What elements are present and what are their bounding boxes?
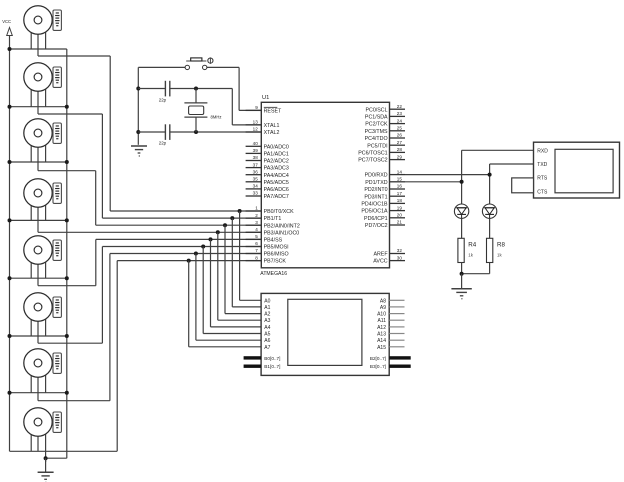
pin 39 PA1/ADC1: [246, 152, 262, 154]
pin 5 PB4/SS: [246, 238, 262, 240]
svg-text:VCC: VCC: [2, 19, 11, 24]
wire PB6 to A6: [195, 254, 197, 341]
svg-text:19: 19: [397, 205, 403, 210]
svg-text:ATMEGA16: ATMEGA16: [260, 271, 287, 277]
svg-text:24: 24: [397, 118, 403, 123]
wire XTAL1 jog: [231, 89, 233, 125]
bus pin B0[0..7]: [244, 356, 262, 359]
wire PB1 to A1: [231, 218, 233, 307]
svg-text:27: 27: [397, 140, 403, 145]
wire PB0 to A0: [239, 211, 241, 300]
wire LS8 signal to PB7: [116, 261, 118, 452]
pin 35 PA5/ADC5: [246, 181, 262, 183]
svg-text:39: 39: [253, 148, 259, 153]
svg-text:PB6/MISO: PB6/MISO: [264, 252, 289, 258]
svg-text:A9: A9: [380, 305, 386, 311]
wire PD0 to LED D2: [405, 174, 490, 176]
svg-text:20: 20: [397, 213, 403, 218]
svg-text:A0: A0: [264, 298, 270, 304]
svg-text:7: 7: [255, 248, 258, 253]
svg-text:22: 22: [397, 104, 403, 109]
display matrix block body: [261, 293, 389, 375]
label sounder LS4: [53, 183, 61, 203]
wire sounder LS4 pins: [30, 193, 32, 220]
svg-text:XTAL2: XTAL2: [264, 130, 280, 136]
wire terminal TXD: [490, 163, 534, 165]
svg-text:36: 36: [253, 169, 259, 174]
ground bottom left: [45, 458, 47, 472]
pin 17 PD3/INT1: [390, 195, 406, 197]
pin 16 PD2/INT0: [390, 188, 406, 190]
pin 8 PB7/SCK: [246, 260, 262, 262]
svg-text:12: 12: [253, 127, 259, 132]
svg-text:9: 9: [255, 105, 258, 110]
svg-text:TXD: TXD: [537, 162, 547, 168]
pin A13: [389, 333, 404, 335]
pin 19 PD5/OC1A: [390, 210, 406, 212]
svg-text:A6: A6: [264, 338, 270, 344]
svg-text:PB4/SS: PB4/SS: [264, 238, 283, 244]
capacitor C1 22p: [164, 81, 166, 97]
node PB3 junction: [216, 230, 220, 234]
resistor R4 1k: [458, 238, 464, 262]
pin 27 PC5/TDI: [390, 144, 406, 146]
sounder LS6: [24, 293, 52, 321]
wire LS5 signal to PB4: [38, 285, 96, 287]
svg-text:A4: A4: [264, 325, 270, 331]
svg-text:PB2/AIN0/INT2: PB2/AIN0/INT2: [264, 223, 300, 229]
pin 2 PB1/T1: [246, 217, 262, 219]
svg-text:8: 8: [255, 255, 258, 260]
svg-text:A10: A10: [377, 312, 386, 318]
bus pin B1[0..7]: [244, 365, 262, 368]
svg-text:14: 14: [397, 169, 403, 174]
pin 3 PB2/AIN0/INT2: [246, 224, 262, 226]
svg-text:PA1/ADC1: PA1/ADC1: [264, 152, 289, 158]
pin 22 PC0/SCL: [390, 108, 406, 110]
wire PB4 to A4: [210, 239, 212, 327]
svg-text:PB3/AIN1/OC0: PB3/AIN1/OC0: [264, 230, 300, 236]
pin 38 PA2/ADC2: [246, 160, 262, 162]
pin 36 PA4/ADC4: [246, 174, 262, 176]
pin 23 PC1/SDA: [390, 115, 406, 117]
wire LS1 signal to PB0: [38, 55, 110, 57]
wire sounder LS1 pins: [30, 20, 32, 49]
label sounder LS1: [53, 10, 61, 30]
svg-text:38: 38: [253, 155, 259, 160]
svg-text:PA7/ADC7: PA7/ADC7: [264, 194, 289, 200]
svg-text:PA2/ADC2: PA2/ADC2: [264, 159, 289, 165]
pin 13 XTAL1: [246, 124, 262, 126]
wire PB7 to A7: [188, 261, 190, 347]
wire sounder LS3 pins: [30, 133, 32, 162]
pin A14: [389, 339, 404, 341]
wire VCC row sounder 8: [10, 450, 118, 452]
svg-text:U1: U1: [262, 95, 269, 101]
pin 40 PA0/ADC0: [246, 145, 262, 147]
svg-text:23: 23: [397, 111, 403, 116]
wire ground bottom left: [46, 457, 67, 459]
wire PD1 to LED D1: [405, 181, 462, 183]
pin 24 PC2/TCK: [390, 123, 406, 125]
pin 37 PA3/ADC3: [246, 167, 262, 169]
svg-text:PD0/RXD: PD0/RXD: [365, 173, 388, 179]
svg-text:29: 29: [397, 154, 403, 159]
svg-text:PA6/ADC6: PA6/ADC6: [264, 187, 289, 193]
pin 28 PC6/TOSC1: [390, 151, 406, 153]
label sounder LS2: [53, 67, 61, 87]
svg-text:PC0/SCL: PC0/SCL: [366, 107, 388, 113]
ground right: [451, 288, 471, 290]
pin 18 PD4/OC1B: [390, 202, 406, 204]
node PB5 junction: [201, 245, 205, 249]
pin 20 PD6/ICP1: [390, 217, 406, 219]
svg-text:28: 28: [397, 147, 403, 152]
svg-text:CTS: CTS: [537, 189, 548, 195]
svg-text:26: 26: [397, 133, 403, 138]
svg-text:A3: A3: [264, 318, 270, 324]
wire VCC row sounder 3: [10, 161, 67, 163]
label sounder LS3: [53, 123, 61, 143]
svg-text:22p: 22p: [159, 97, 167, 102]
svg-text:6: 6: [255, 241, 258, 246]
svg-text:30: 30: [397, 255, 403, 260]
wire LS6 signal to PB5: [38, 342, 102, 344]
svg-text:A8: A8: [380, 298, 386, 304]
svg-text:PB0/T0/XCK: PB0/T0/XCK: [264, 209, 294, 215]
svg-text:3: 3: [255, 220, 258, 225]
pin 29 PC7/TOSC2: [390, 159, 406, 161]
node PB6 junction: [194, 252, 198, 256]
svg-text:A2: A2: [264, 312, 270, 318]
pin A15: [389, 346, 404, 348]
ground crystal: [131, 145, 147, 147]
label sounder LS5: [53, 240, 61, 260]
svg-text:8MHz: 8MHz: [211, 114, 222, 119]
wire LS3 signal to PB2: [38, 170, 96, 172]
pin 4 PB3/AIN1/OC0: [246, 231, 262, 233]
wire cap rows: [138, 88, 165, 90]
svg-text:R8: R8: [497, 242, 505, 249]
sounder LS8: [24, 408, 52, 436]
pin A11: [389, 319, 404, 321]
resistor R8 1k: [487, 238, 493, 262]
LED D1: [454, 204, 468, 218]
svg-text:37: 37: [253, 162, 259, 167]
wire PB3 to A3: [217, 232, 219, 320]
svg-text:PB1/T1: PB1/T1: [264, 216, 282, 222]
LED D2: [482, 204, 496, 218]
svg-text:22p: 22p: [159, 141, 167, 146]
pin 32 AREF: [390, 253, 406, 255]
svg-text:PC7/TOSC2: PC7/TOSC2: [358, 158, 387, 164]
wire sounder LS8 pins: [30, 422, 32, 451]
sounder LS4: [24, 179, 52, 207]
svg-text:25: 25: [397, 126, 403, 131]
svg-text:PA5/ADC5: PA5/ADC5: [264, 180, 289, 186]
wire VCC row sounder 4: [10, 219, 67, 221]
pin A9: [389, 306, 404, 308]
wire button to RESET: [238, 67, 240, 110]
sounder LS5: [24, 236, 52, 264]
wire LS2 signal to PB1: [38, 113, 102, 115]
bus pin B3[0..7]: [389, 365, 411, 368]
node PB4 junction: [209, 237, 213, 241]
sounder LS3: [24, 119, 52, 147]
pin 9 RESET: [246, 109, 262, 111]
svg-text:A15: A15: [377, 345, 386, 351]
node PB1 junction: [230, 216, 234, 220]
pin 30 AVCC: [390, 260, 406, 262]
svg-text:PD5/OC1A: PD5/OC1A: [361, 209, 388, 215]
svg-text:RXD: RXD: [537, 148, 548, 154]
svg-text:R4: R4: [468, 242, 476, 249]
svg-text:RTS: RTS: [537, 176, 548, 182]
button: [138, 66, 185, 68]
svg-text:PD6/ICP1: PD6/ICP1: [364, 216, 388, 222]
pin 6 PB5/MOSI: [246, 246, 262, 248]
wire sounder LS2 pins: [30, 77, 32, 107]
svg-text:A11: A11: [377, 318, 386, 324]
svg-text:PD2/INT0: PD2/INT0: [364, 187, 387, 193]
capacitor C2 22p: [164, 124, 166, 140]
wire sounder LS6 pins: [30, 307, 32, 336]
svg-text:15: 15: [397, 177, 403, 182]
terminal VT1: [534, 142, 620, 198]
wire VCC row sounder 7: [10, 392, 67, 394]
svg-text:A13: A13: [377, 332, 386, 338]
svg-text:PB5/MOSI: PB5/MOSI: [264, 245, 289, 251]
svg-text:1k: 1k: [468, 253, 473, 258]
sounder LS7: [24, 349, 52, 377]
wire PB2 to A2: [224, 225, 226, 313]
svg-text:PC3/TMS: PC3/TMS: [365, 129, 388, 135]
svg-text:34: 34: [253, 184, 259, 189]
wire VCC row sounder 2: [10, 106, 67, 108]
pin 7 PB6/MISO: [246, 253, 262, 255]
wire terminal RXD: [462, 149, 534, 151]
svg-text:A14: A14: [377, 338, 386, 344]
svg-text:PC5/TDI: PC5/TDI: [367, 143, 387, 149]
svg-text:PC2/TCK: PC2/TCK: [365, 122, 388, 128]
label sounder LS6: [53, 297, 61, 317]
label sounder LS8: [53, 412, 61, 432]
wire sounder LS5 pins: [30, 250, 32, 278]
bus pin B2[0..7]: [389, 356, 411, 359]
svg-text:PD3/INT1: PD3/INT1: [364, 194, 387, 200]
svg-text:32: 32: [397, 248, 403, 253]
svg-text:A12: A12: [377, 325, 386, 331]
op-amp U1 ATMEGA16 body: [261, 102, 389, 267]
wire VCC left rail: [9, 49, 11, 451]
svg-text:21: 21: [397, 220, 403, 225]
wire PB5 to A5: [202, 247, 204, 334]
svg-text:1k: 1k: [497, 253, 502, 258]
wire LS7 signal to PB6: [38, 400, 110, 402]
svg-text:16: 16: [397, 184, 403, 189]
svg-text:B3[0..7]: B3[0..7]: [370, 364, 386, 369]
svg-text:PC4/TDO: PC4/TDO: [365, 136, 388, 142]
svg-text:A5: A5: [264, 332, 270, 338]
svg-text:AVCC: AVCC: [373, 259, 387, 265]
wire LS4 signal to PB3: [38, 231, 261, 233]
node PB0 junction: [238, 209, 242, 213]
svg-text:4: 4: [255, 227, 258, 232]
svg-text:A1: A1: [264, 305, 270, 311]
sounder LS2: [24, 63, 52, 91]
svg-text:33: 33: [253, 191, 259, 196]
svg-text:B1[0..7]: B1[0..7]: [264, 364, 280, 369]
wire button left vertical: [137, 67, 139, 144]
pin 14 PD0/RXD: [390, 174, 406, 176]
pin 33 PA7/ADC7: [246, 195, 262, 197]
svg-text:PA0/ADC0: PA0/ADC0: [264, 144, 289, 150]
svg-text:XTAL1: XTAL1: [264, 123, 280, 129]
svg-text:PD1/TXD: PD1/TXD: [365, 180, 388, 186]
wire LED to resistors: [461, 218, 463, 238]
svg-text:PA3/ADC3: PA3/ADC3: [264, 166, 289, 172]
svg-text:B0[0..7]: B0[0..7]: [264, 356, 280, 361]
svg-text:17: 17: [397, 191, 403, 196]
svg-text:PD7/OC2: PD7/OC2: [365, 223, 388, 229]
svg-text:PB7/SCK: PB7/SCK: [264, 259, 287, 265]
wire VCC right rail: [66, 49, 68, 458]
svg-text:RESET: RESET: [264, 109, 282, 115]
pin 21 PD7/OC2: [390, 224, 406, 226]
label sounder LS7: [53, 353, 61, 373]
svg-text:B2[0..7]: B2[0..7]: [370, 356, 386, 361]
pin 34 PA6/ADC6: [246, 188, 262, 190]
svg-text:1: 1: [255, 206, 258, 211]
wire resistors to ground: [461, 263, 463, 274]
pin 15 PD1/TXD: [390, 181, 406, 183]
wire VCC row sounder 1: [10, 48, 67, 50]
svg-text:2: 2: [255, 213, 258, 218]
pin 1 PB0/T0/XCK: [246, 210, 262, 212]
svg-text:18: 18: [397, 198, 403, 203]
svg-text:PC6/TOSC1: PC6/TOSC1: [358, 151, 387, 157]
wire VCC row sounder 5: [10, 277, 67, 279]
svg-text:13: 13: [253, 120, 259, 125]
pin 25 PC3/TMS: [390, 130, 406, 132]
pin A8: [389, 299, 404, 301]
svg-text:PC1/SDA: PC1/SDA: [365, 115, 388, 121]
sounder LS1: [24, 6, 52, 34]
pin 12 XTAL2: [246, 131, 262, 133]
svg-text:5: 5: [255, 234, 258, 239]
svg-text:A7: A7: [264, 345, 270, 351]
node PB7 junction: [187, 259, 191, 263]
wire VCC row sounder 6: [10, 335, 67, 337]
svg-text:PA4/ADC4: PA4/ADC4: [264, 173, 289, 179]
pin A10: [389, 313, 404, 315]
crystal X1 8MHz: [195, 89, 197, 103]
svg-text:35: 35: [253, 177, 259, 182]
node PB2 junction: [223, 223, 227, 227]
pin A12: [389, 326, 404, 328]
svg-text:AREF: AREF: [373, 252, 388, 258]
svg-text:PD4/OC1B: PD4/OC1B: [361, 202, 388, 208]
pin 26 PC4/TDO: [390, 137, 406, 139]
wire sounder LS7 pins: [30, 363, 32, 393]
svg-text:40: 40: [253, 141, 259, 146]
